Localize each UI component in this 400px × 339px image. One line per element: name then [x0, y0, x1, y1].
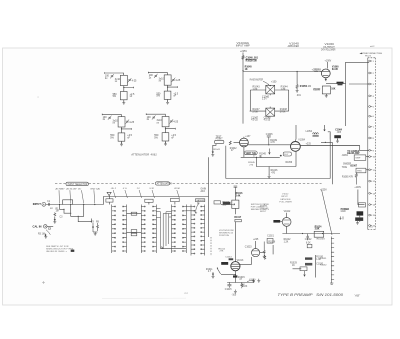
resistor body R610 [162, 133, 169, 141]
cap link wires [359, 216, 361, 222]
right feed vertical [345, 84, 347, 126]
svg-text:.005: .005 [337, 132, 342, 134]
attenuator cell 1 input wire [105, 72, 124, 75]
resistor body R310 [120, 92, 127, 100]
V1022 cathode drop [286, 226, 288, 233]
svg-text:INPUT AMP: INPUT AMP [236, 45, 250, 48]
leader line 1 2 [139, 190, 142, 198]
trimmer C610B [170, 119, 174, 123]
svg-text:+225: +225 [306, 143, 312, 145]
trimmer C610A [152, 115, 156, 119]
follower plate riser [295, 125, 297, 140]
switch wafer S1A left [112, 205, 115, 254]
notes end box [71, 250, 75, 252]
tube V1013 [231, 262, 240, 271]
bus arrow [161, 246, 163, 248]
plug pin 3 [369, 83, 371, 85]
screen drop wire [296, 72, 298, 85]
svg-text:.001: .001 [296, 95, 301, 97]
svg-text:+150: +150 [271, 80, 277, 83]
tube V1040B (X symbol) [266, 108, 275, 116]
svg-text:R1056: R1056 [286, 162, 293, 164]
bus dot 2 [322, 233, 323, 234]
C1013 blob [229, 258, 234, 260]
svg-text:R1045: R1045 [259, 153, 266, 155]
R1017 box [235, 219, 241, 221]
svg-text:R3 1M: R3 1M [38, 233, 45, 235]
leader line 5 10 [152, 190, 155, 198]
dashed stem below ladder [210, 237, 212, 256]
C1029 dark blob 2 [305, 263, 312, 266]
svg-text:+225: +225 [253, 239, 259, 241]
svg-text:R1032: R1032 [320, 265, 327, 267]
switch wafer S1A right [123, 205, 126, 254]
V1013 cathode ground [234, 290, 237, 294]
svg-text:1K: 1K [292, 265, 295, 267]
R1062 ground [325, 94, 328, 98]
svg-text:V1022: V1022 [284, 211, 291, 213]
capacitor C1015 [227, 282, 231, 287]
svg-text:+137: +137 [245, 136, 251, 138]
gain pot feed [234, 190, 236, 201]
cal wire [47, 225, 53, 227]
elbow to pin 14 [358, 190, 365, 205]
plug body dashed outline [367, 58, 369, 230]
switch wafer S1C right [183, 205, 186, 254]
ganged label box [195, 199, 204, 202]
svg-text:ATTENUATOR 4X61: ATTENUATOR 4X61 [130, 152, 157, 156]
electrolytic C1070 [355, 217, 363, 221]
svg-text:DLY: DLY [284, 154, 289, 156]
svg-text:TYPE B PREAMP S/N 101-5000: TYPE B PREAMP S/N 101-5000 [278, 293, 344, 297]
V1040A plate node [270, 85, 271, 86]
svg-text:.2 .5: .2 .5 [122, 188, 127, 190]
svg-text:CAL IN: CAL IN [33, 224, 42, 228]
R1026 wire [272, 245, 274, 254]
mid vertical bus wires [156, 212, 171, 249]
plug pin 6 [369, 115, 371, 117]
input wire [46, 204, 104, 206]
svg-text:B1067: B1067 [350, 165, 357, 167]
right loop inner side [329, 133, 331, 179]
cell 2 ground [166, 101, 169, 105]
svg-text:6AU6: 6AU6 [332, 68, 339, 71]
plug pin 7 [369, 126, 371, 128]
capacitor C1 [48, 203, 49, 206]
bus dot 1 [302, 233, 303, 234]
V1013 plate to V1023 cathode wire [240, 257, 252, 264]
svg-text:TRG: TRG [357, 170, 362, 172]
selector contact dot [70, 204, 71, 205]
cathode left branch [221, 274, 235, 276]
V1022 plate wire [286, 213, 288, 218]
plug feed wire top [346, 62, 369, 83]
pot drop wire [234, 208, 236, 214]
svg-text:R1041: R1041 [214, 149, 221, 151]
svg-text:AC FAST: AC FAST [55, 187, 66, 190]
svg-text:+225V: +225V [320, 190, 327, 192]
trimmer C510A [108, 116, 112, 120]
step node [78, 216, 79, 217]
svg-text:POSITION: POSITION [219, 235, 229, 237]
selector contact dot [94, 204, 95, 205]
selector contact dot [59, 204, 60, 205]
follower node dot [325, 142, 326, 143]
node grid wire junction [242, 70, 243, 71]
V1043 cathode drop [243, 147, 245, 157]
wiper feed vertical [208, 197, 210, 238]
V1043 output wire [248, 144, 290, 146]
R1011 ground [212, 275, 215, 279]
V1043 grid wire [234, 142, 240, 144]
svg-text:1.8K: 1.8K [281, 88, 286, 91]
svg-text:1.2K: 1.2K [284, 241, 289, 243]
trimmer box [307, 244, 312, 248]
svg-text:27K: 27K [220, 251, 224, 253]
K1015 arc [247, 280, 255, 282]
switch wafer S1D right [201, 205, 204, 256]
junction tick wire [321, 141, 332, 143]
wafer top box 3 [171, 198, 180, 201]
grid entry wire [314, 71, 321, 73]
svg-text:AA: AA [183, 291, 188, 295]
tube V1043 [240, 138, 249, 147]
input selector label box [66, 182, 88, 186]
svg-text:“AB”: “AB” [354, 294, 361, 298]
R1011 drop [212, 272, 214, 275]
page sheet [3, 48, 393, 305]
phase inverter loop sides [250, 90, 288, 111]
test point ground [211, 153, 214, 157]
plug feed wire 2 [349, 83, 369, 85]
R1025 ground [263, 254, 266, 258]
resistor R1023 [307, 234, 309, 241]
V1023 cathode wire [260, 252, 265, 254]
V1013 cathode drop [234, 271, 236, 283]
leader line .05 .1 [113, 190, 116, 198]
svg-text:INPUT: INPUT [260, 211, 267, 213]
R1029 wire [293, 268, 302, 270]
wafer top box 2 [145, 199, 153, 202]
svg-text:+225V: +225V [240, 50, 247, 53]
cal drop arrow [45, 234, 46, 236]
svg-text:1K: 1K [245, 68, 248, 71]
V1060 plate riser [327, 62, 329, 69]
svg-text:PLUG: PLUG [365, 56, 371, 58]
bus junction blob [280, 155, 282, 157]
R1046 lead [268, 167, 270, 176]
switch wafer S1D left [191, 205, 194, 256]
output divider ladder [331, 237, 334, 284]
junction arrow [269, 149, 271, 155]
C1045 junction [268, 144, 269, 145]
svg-text:C1021: C1021 [267, 236, 274, 238]
relay box K1024 [314, 231, 324, 237]
cap body C510 [118, 117, 125, 127]
relay box wire 2 [366, 169, 369, 171]
plug pin 10 [369, 156, 371, 158]
test point box [214, 140, 224, 143]
plug pin 14 [369, 204, 371, 206]
cell 4 ground [164, 142, 167, 146]
pot left wire [221, 203, 229, 205]
cap body C610 [162, 117, 169, 127]
drop arrow [304, 271, 306, 276]
plate supply riser [242, 53, 244, 71]
cell 4 mid junction wire [166, 127, 176, 130]
svg-text:V1054: V1054 [298, 140, 305, 142]
svg-text:-100: -100 [240, 285, 245, 287]
tube V1054 output follower [291, 142, 301, 152]
svg-text:+100V: +100V [354, 187, 361, 189]
svg-text:4-25: 4-25 [132, 80, 137, 83]
tube V1023 [252, 249, 260, 257]
peaking drop wire [324, 125, 326, 131]
screen ground [296, 89, 299, 93]
registration cross [42, 281, 45, 284]
screen tap dot [297, 71, 298, 72]
svg-text:INPUT: INPUT [33, 202, 41, 206]
svg-text:4.5-25: 4.5-25 [251, 120, 258, 122]
svg-text:-100: -100 [232, 294, 237, 296]
svg-text:2.2M: 2.2M [306, 86, 311, 88]
cal connector J2 [44, 225, 47, 228]
svg-text:4.7K: 4.7K [270, 142, 275, 144]
resistor R1065 [355, 173, 357, 185]
resistor R1050 [296, 84, 298, 89]
svg-text:GND: GND [341, 211, 346, 213]
trimmer C310B [128, 78, 132, 82]
cathode bottom bus [227, 282, 254, 284]
svg-text:20 50: 20 50 [173, 188, 180, 190]
svg-text:FOLLOWER: FOLLOWER [279, 201, 292, 203]
arrow marker [359, 53, 362, 54]
svg-text:R1065 47K: R1065 47K [342, 177, 354, 179]
feedthrough C1062 [337, 82, 344, 84]
output wire to plug [300, 145, 359, 147]
step node [63, 209, 64, 210]
cathode junction [235, 274, 236, 275]
svg-text:SWP: SWP [355, 158, 361, 160]
svg-text:C1045: C1045 [266, 134, 273, 136]
R1046 ground [268, 175, 271, 179]
electrolytic C1069 [357, 211, 364, 215]
svg-text:V1013: V1013 [237, 260, 244, 262]
mid ground 2 [257, 279, 260, 283]
svg-text:R1017: R1017 [234, 217, 241, 219]
lower loop bottom wire [226, 178, 330, 180]
svg-text:1M: 1M [56, 211, 59, 213]
inter wafer stubs [156, 207, 191, 218]
svg-text:INPUT SELECTOR: INPUT SELECTOR [68, 184, 88, 186]
mid ground 1 [252, 279, 255, 283]
cell 1 mid junction wire [124, 86, 134, 89]
svg-text:R1039 1M: R1039 1M [246, 60, 257, 63]
box B1069 [359, 203, 366, 207]
switch wafer S1B left [141, 205, 144, 254]
resistor R1039 [242, 56, 244, 60]
resistor body R510 [118, 133, 125, 141]
corner wire [328, 132, 330, 140]
leader line .2 .5 [125, 190, 128, 198]
svg-text:SEE PARTS LIST FOR: SEE PARTS LIST FOR [46, 245, 69, 248]
plug pin 13 [369, 192, 371, 194]
svg-text:.05 .1: .05 .1 [111, 188, 117, 190]
plug pin 2 [369, 72, 371, 74]
drop bus to follower cathode [256, 157, 296, 166]
tube V1060 [321, 69, 330, 78]
tube V1022 [282, 218, 291, 227]
svg-text:J1063: J1063 [342, 155, 349, 157]
cathode arrow wire [325, 78, 327, 81]
C1040 link stubs [269, 94, 271, 108]
test point drop wire [212, 144, 216, 153]
svg-text:R1026: R1026 [268, 241, 275, 243]
cell 3 ground [120, 142, 123, 146]
resistor R1042 [229, 141, 231, 145]
attenuator cell 2 input wire [148, 72, 167, 75]
wafer link wire 1 [127, 213, 142, 215]
wafer top box 1 [106, 199, 113, 202]
svg-text:DC: DC [78, 188, 82, 190]
switch wafer S1B right [153, 205, 156, 254]
capacitor C1064 body [334, 135, 341, 138]
corner dash [370, 45, 375, 47]
svg-text:TRIG: TRIG [342, 167, 348, 169]
long grid bus wire [243, 71, 322, 73]
capacitor C1045 [267, 136, 271, 145]
resistor R1045 [260, 155, 262, 157]
attenuator cell 4 input wire [146, 113, 165, 116]
bottom bus wire [161, 248, 187, 250]
cluster link [93, 231, 98, 233]
trimmer C510B [126, 120, 130, 124]
cathode bus long wire [282, 233, 340, 235]
trimmer C410B [172, 78, 176, 82]
selector step 2 [71, 205, 84, 217]
svg-text:VALUES IN OHMS =: VALUES IN OHMS = [46, 250, 68, 253]
R1062 lead [325, 94, 327, 95]
svg-text:CATH FOLLOWER: CATH FOLLOWER [321, 48, 336, 51]
plug cluster ground [356, 221, 359, 225]
plug pin 9 [369, 149, 371, 151]
svg-text:C1015: C1015 [225, 289, 232, 291]
C9 R9 ground [94, 232, 97, 236]
plug pin 1 [369, 60, 371, 62]
svg-text:BEAM AMP: BEAM AMP [347, 152, 360, 155]
leader line AC FAST [58, 190, 61, 203]
switch wafer S1C left [172, 205, 175, 254]
relay box B1068 [356, 168, 366, 173]
svg-text:3.9K: 3.9K [315, 229, 320, 231]
chassis dashed boundary [55, 183, 322, 185]
plug pin 15 [369, 214, 371, 216]
svg-text:1.5-7: 1.5-7 [262, 98, 268, 101]
svg-text:ADJ: ADJ [201, 190, 205, 193]
svg-text:4-25: 4-25 [129, 121, 134, 124]
tube V1040A (X symbol) [266, 85, 275, 94]
relay box wire [366, 156, 369, 158]
plug pin 4 [369, 95, 371, 97]
capacitor C1016 [234, 186, 238, 190]
coupling box [214, 201, 221, 204]
plug pin 11 [369, 169, 371, 171]
ladder end bar [330, 283, 333, 284]
dc shift label box [283, 152, 291, 156]
leader line 20 50 [177, 190, 180, 198]
cap body C310 [120, 75, 127, 85]
gain pot box [232, 200, 239, 208]
V1013 grid drop [234, 222, 236, 262]
resistor body R410 [164, 91, 171, 99]
svg-text:CATHODE: CATHODE [280, 198, 291, 201]
svg-text:4-25: 4-25 [175, 79, 180, 82]
wiper vertical upper [208, 157, 210, 196]
lower loop left side wire [225, 146, 227, 179]
resistor R1028 [264, 255, 266, 260]
svg-text:GANGED: GANGED [196, 199, 205, 202]
bus junction dot [256, 157, 257, 158]
cathode blob [233, 275, 237, 277]
C1029 dark blob 1 [305, 257, 312, 259]
svg-text:L1054: L1054 [306, 131, 313, 133]
input connector J1 [42, 202, 46, 206]
cap body C410 [164, 75, 171, 85]
plug pin 5 [369, 106, 371, 108]
svg-text:R1062: R1062 [314, 89, 321, 91]
R1 drop arrow [54, 217, 56, 221]
svg-text:C1022: C1022 [305, 239, 312, 241]
cathode bus to plug [326, 83, 346, 85]
leader arrow to tube [263, 81, 269, 85]
step node [91, 221, 92, 222]
svg-text:4.5-25: 4.5-25 [264, 120, 271, 122]
attenuator cell 3 input wire [102, 114, 121, 117]
coupling box label [223, 202, 231, 205]
attenuator label box [155, 182, 169, 185]
input stage vertical wire [242, 71, 244, 124]
svg-text:C1023: C1023 [245, 246, 252, 248]
to-scope wire [300, 146, 368, 151]
wafer link wire 2 [127, 232, 142, 234]
fold crease [102, 297, 186, 299]
resistor R9 [97, 223, 99, 231]
arrow mark [340, 216, 343, 219]
resistor R1062 box [322, 86, 330, 94]
switch blade arc [46, 230, 50, 235]
svg-text:ATTENUATOR: ATTENUATOR [157, 182, 173, 185]
output amp pill label [244, 151, 257, 155]
svg-text:1.8K: 1.8K [253, 88, 258, 91]
svg-text:PHASE INVERTER: PHASE INVERTER [250, 79, 263, 82]
resistor R1 [54, 212, 56, 216]
R1 ground [53, 220, 56, 224]
svg-text:2.4K: 2.4K [236, 194, 241, 197]
follower cathode drop [295, 151, 297, 166]
leader line GND CAL [93, 190, 96, 203]
selector contact dot [83, 204, 84, 205]
svg-text:AC SLOW: AC SLOW [65, 187, 77, 190]
selector step 1 [60, 205, 72, 214]
resistor R1011 arrow [217, 268, 221, 275]
grid label dark [221, 262, 228, 265]
resistor R1025 [263, 242, 265, 255]
svg-text:SIGNAL: SIGNAL [260, 205, 268, 208]
cell 3 mid junction wire [122, 127, 132, 130]
svg-text:R1031: R1031 [320, 258, 327, 260]
leader line AC SLOW [69, 190, 72, 203]
trimmer C310A [110, 74, 114, 78]
